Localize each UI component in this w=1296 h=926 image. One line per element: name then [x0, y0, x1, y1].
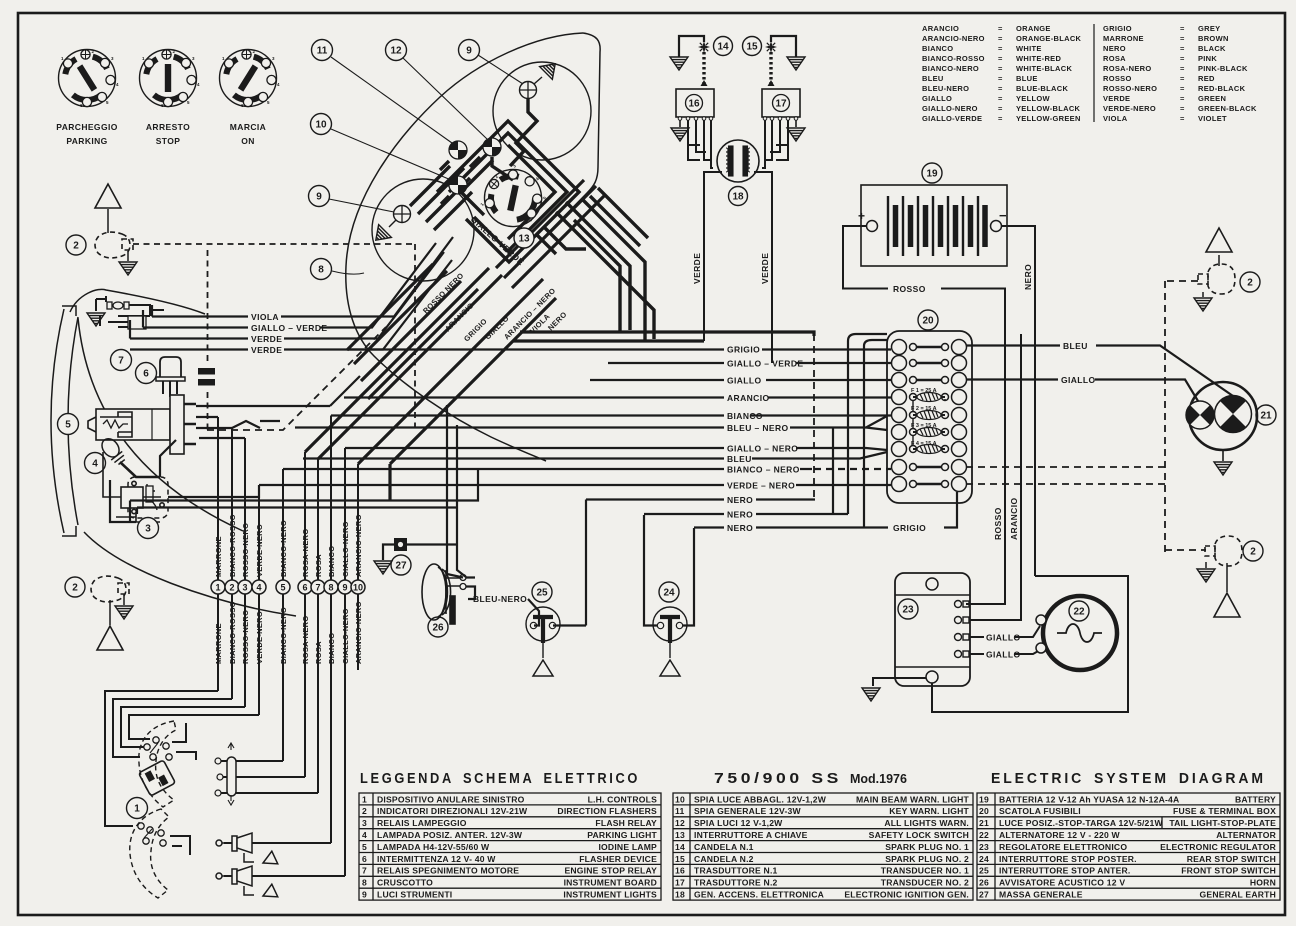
svg-text:ON: ON: [241, 136, 255, 146]
svg-text:BIANCO-NERO: BIANCO-NERO: [279, 607, 288, 664]
svg-text:14: 14: [675, 842, 685, 852]
svg-text:=: =: [1180, 34, 1185, 43]
svg-text:SPARK PLUG NO. 1: SPARK PLUG NO. 1: [885, 842, 969, 852]
dashed wire from front-left turn signal: [133, 244, 415, 430]
svg-text:25: 25: [536, 588, 548, 599]
svg-text:GIALLO-NERO: GIALLO-NERO: [341, 521, 350, 577]
svg-text:DIRECTION FLASHERS: DIRECTION FLASHERS: [557, 806, 657, 816]
terminal circles: [211, 580, 365, 594]
svg-text:20: 20: [979, 806, 989, 816]
shell bottom lip: [84, 532, 296, 616]
svg-text:GRIGIO: GRIGIO: [1103, 24, 1132, 33]
svg-text:KEY WARN. LIGHT: KEY WARN. LIGHT: [889, 806, 969, 816]
flash relay 6: [160, 357, 181, 377]
svg-text:ROSA: ROSA: [1103, 54, 1126, 63]
svg-text:2: 2: [1250, 547, 1256, 558]
svg-text:PINK-BLACK: PINK-BLACK: [1198, 64, 1248, 73]
svg-text:WHITE-RED: WHITE-RED: [1016, 54, 1061, 63]
balloon 11 with leader: [331, 57, 452, 143]
svg-text:REAR STOP SWITCH: REAR STOP SWITCH: [1187, 854, 1276, 864]
wire VERDE-NERO: [259, 484, 891, 486]
svg-text:ARANCIO: ARANCIO: [727, 393, 769, 403]
svg-text:11: 11: [675, 806, 685, 816]
spark plug 14: [679, 36, 708, 86]
svg-text:ORANGE: ORANGE: [1016, 24, 1051, 33]
svg-text:12: 12: [675, 818, 685, 828]
svg-text:17: 17: [675, 878, 685, 888]
svg-text:ARANCIO: ARANCIO: [1009, 498, 1019, 540]
lamp ladder wires: [410, 166, 472, 230]
svg-text:ARANCIO-NERO: ARANCIO-NERO: [922, 34, 985, 43]
svg-text:16: 16: [688, 99, 700, 110]
svg-text:VERDE: VERDE: [760, 253, 770, 284]
svg-text:4: 4: [256, 583, 261, 593]
svg-text:INSTRUMENT BOARD: INSTRUMENT BOARD: [564, 878, 657, 888]
svg-text:PARKING LIGHT: PARKING LIGHT: [587, 830, 657, 840]
svg-text:9: 9: [316, 192, 322, 203]
svg-text:GIALLO: GIALLO: [1061, 375, 1096, 385]
terminal rows: [892, 340, 967, 492]
svg-text:BIANCO-NERO: BIANCO-NERO: [279, 520, 288, 577]
wire NERO 1: [586, 500, 815, 626]
svg-text:=: =: [998, 74, 1003, 83]
svg-text:VERDE: VERDE: [251, 334, 282, 344]
svg-text:BIANCO: BIANCO: [727, 411, 763, 421]
svg-text:BATTERY: BATTERY: [1235, 794, 1276, 804]
svg-text:2: 2: [229, 583, 234, 593]
big lamp: [1215, 396, 1252, 433]
svg-text:ELECTRONIC IGNITION GEN.: ELECTRONIC IGNITION GEN.: [844, 890, 969, 900]
svg-text:RELAIS SPEGNIMENTO MOTORE: RELAIS SPEGNIMENTO MOTORE: [377, 866, 519, 876]
svg-text:TRANSDUCER NO. 2: TRANSDUCER NO. 2: [881, 878, 969, 888]
horn button 2: [216, 866, 278, 902]
svg-text:=: =: [1180, 74, 1185, 83]
svg-text:YELLOW-GREEN: YELLOW-GREEN: [1016, 114, 1081, 123]
svg-text:SPIA LUCI 12 V-1,2W: SPIA LUCI 12 V-1,2W: [694, 818, 783, 828]
svg-text:ROSSO: ROSSO: [1103, 74, 1132, 83]
svg-text:VERDE: VERDE: [1103, 94, 1130, 103]
svg-text:MASSA GENERALE: MASSA GENERALE: [999, 890, 1083, 900]
balloon 9 top with leader: [478, 55, 523, 84]
svg-text:23: 23: [902, 605, 914, 616]
svg-text:INTERRUTTORE A CHIAVE: INTERRUTTORE A CHIAVE: [694, 830, 808, 840]
lower contacts: [138, 823, 166, 846]
lens outer arc: [51, 309, 64, 533]
parking lamp 4: [98, 435, 127, 466]
engine stop relay parts 7: [96, 296, 164, 329]
VERDE wires down: [704, 172, 772, 363]
svg-text:GIALLO-VERDE: GIALLO-VERDE: [922, 114, 982, 123]
svg-text:VERDE: VERDE: [692, 253, 702, 284]
svg-text:22: 22: [1073, 607, 1085, 618]
dash lamp 9 left: [394, 206, 411, 223]
svg-text:=: =: [998, 54, 1003, 63]
svg-text:5: 5: [280, 583, 285, 593]
key switch 13: [472, 155, 556, 239]
speedometer circle: [493, 62, 591, 160]
svg-text:SCATOLA FUSIBILI: SCATOLA FUSIBILI: [999, 806, 1081, 816]
svg-text:22: 22: [979, 830, 989, 840]
wire BLEU-NERO: [295, 416, 887, 430]
diagonal NERO: [390, 298, 556, 500]
upper contacts: [144, 737, 172, 760]
svg-text:INTERMITTENZA 12 V- 40 W: INTERMITTENZA 12 V- 40 W: [377, 854, 496, 864]
svg-text:VERDE: VERDE: [251, 345, 282, 355]
svg-text:=: =: [998, 84, 1003, 93]
svg-text:6: 6: [143, 369, 149, 380]
headlight harness rows: [110, 376, 360, 522]
wire NERO 3: [694, 526, 864, 528]
svg-text:BIANCO-ROSSO: BIANCO-ROSSO: [922, 54, 985, 63]
svg-text:L.H. CONTROLS: L.H. CONTROLS: [588, 794, 658, 804]
svg-text:13: 13: [675, 830, 685, 840]
terminal labels upper: [214, 514, 363, 577]
svg-text:1: 1: [134, 804, 140, 815]
battery wires: ROSSO and NERO: [843, 226, 1035, 604]
svg-text:8: 8: [362, 878, 367, 888]
balloon 14: [714, 37, 733, 56]
svg-text:12: 12: [390, 46, 402, 57]
svg-text:BROWN: BROWN: [1198, 34, 1229, 43]
wire GRIGIO: [347, 348, 891, 350]
svg-text:PARKING: PARKING: [66, 136, 107, 146]
svg-text:15: 15: [746, 42, 758, 53]
horn wires: [447, 405, 475, 599]
wire BLEU to tail light: [966, 346, 1233, 397]
svg-text:VERDE-NERO: VERDE-NERO: [255, 524, 264, 577]
svg-text:13: 13: [518, 234, 530, 245]
warning lamp 11: [447, 139, 469, 161]
svg-text:21: 21: [979, 818, 989, 828]
wires VIOLA / GIALLO-VERDE / VERDE / VERDE: [130, 237, 453, 350]
wire BIANCO-NERO: [283, 468, 812, 470]
svg-text:BLEU: BLEU: [922, 74, 944, 83]
diagonal ARANCIO-NERO: [358, 279, 543, 464]
svg-text:BLEU-NERO: BLEU-NERO: [922, 84, 969, 93]
diamond ring outer: [437, 121, 579, 262]
svg-text:5: 5: [362, 842, 367, 852]
svg-text:27: 27: [395, 561, 407, 572]
svg-text:ARANCIO: ARANCIO: [922, 24, 959, 33]
svg-text:BATTERIA 12 V-12 Ah YUASA 12 N: BATTERIA 12 V-12 Ah YUASA 12 N-12A-4A: [999, 794, 1179, 804]
svg-text:ROSSO-NERO: ROSSO-NERO: [241, 610, 250, 664]
svg-text:14: 14: [717, 42, 729, 53]
svg-text:16: 16: [675, 866, 685, 876]
shell main arc: [78, 318, 243, 531]
svg-text:2: 2: [72, 583, 78, 594]
svg-text:1: 1: [362, 794, 367, 804]
transducer 16: [676, 89, 714, 117]
svg-text:MARRONE: MARRONE: [214, 623, 223, 664]
svg-text:4: 4: [92, 459, 98, 470]
svg-text:MARRONE: MARRONE: [214, 536, 223, 577]
svg-text:GENERAL EARTH: GENERAL EARTH: [1200, 890, 1276, 900]
svg-text:=: =: [1180, 94, 1185, 103]
svg-text:NERO: NERO: [1023, 264, 1033, 290]
svg-text:TRANSDUCER NO. 1: TRANSDUCER NO. 1: [881, 866, 969, 876]
svg-text:GIALLO-NERO: GIALLO-NERO: [341, 608, 350, 664]
warning lamp 10: [447, 174, 469, 196]
diagonal GIALLO: [361, 281, 461, 381]
svg-text:=: =: [998, 44, 1003, 53]
svg-text:ARANCIO-NERO: ARANCIO-NERO: [354, 601, 363, 664]
lower switch crescent (dashed): [130, 809, 169, 898]
svg-text:NERO: NERO: [727, 510, 753, 520]
svg-text:GIALLO: GIALLO: [986, 650, 1021, 660]
svg-text:BLEU: BLEU: [1063, 341, 1088, 351]
svg-text:=: =: [998, 64, 1003, 73]
svg-text:FRONT STOP SWITCH: FRONT STOP SWITCH: [1181, 866, 1276, 876]
svg-text:23: 23: [979, 842, 989, 852]
svg-text:8: 8: [318, 265, 324, 276]
front-left turn signal 2: [95, 232, 133, 258]
svg-text:7: 7: [118, 356, 124, 367]
svg-text:GREY: GREY: [1198, 24, 1220, 33]
svg-text:18: 18: [732, 192, 744, 203]
wire GRIGIO bottom to fuse row 9: [864, 492, 957, 528]
balloon 18: [729, 187, 748, 206]
svg-text:9: 9: [466, 46, 472, 57]
svg-text:VERDE-NERO: VERDE-NERO: [255, 611, 264, 664]
svg-text:9: 9: [362, 890, 367, 900]
svg-text:2: 2: [362, 806, 367, 816]
svg-text:BIANCO: BIANCO: [327, 546, 336, 577]
svg-text:INTERRUTTORE STOP POSTER.: INTERRUTTORE STOP POSTER.: [999, 854, 1137, 864]
svg-text:ROSA-NERO: ROSA-NERO: [301, 528, 310, 577]
svg-text:ROSSO: ROSSO: [893, 284, 926, 294]
terminal labels lower: [214, 601, 363, 664]
svg-text:ROSA-NERO: ROSA-NERO: [1103, 64, 1152, 73]
svg-text:=: =: [1180, 114, 1185, 123]
svg-text:18: 18: [675, 890, 685, 900]
svg-text:PARCHEGGIO: PARCHEGGIO: [56, 122, 117, 132]
svg-text:CANDELA N.2: CANDELA N.2: [694, 854, 754, 864]
regulator wires: [873, 334, 1128, 712]
diagonal ROSA: [318, 275, 502, 459]
svg-text:750/900 SS: 750/900 SS: [714, 771, 842, 787]
svg-text:26: 26: [979, 878, 989, 888]
balloon 8 with leader: [332, 271, 364, 274]
diagonal wire labels: [421, 271, 569, 343]
wire BLEU: [303, 452, 887, 459]
legend divider line: [1093, 24, 1095, 122]
diamond ring 3: [508, 145, 555, 239]
svg-text:2: 2: [73, 241, 79, 252]
svg-text:LUCI STRUMENTI: LUCI STRUMENTI: [377, 890, 452, 900]
extra SE parallels: [496, 180, 606, 288]
spark plug 15: [768, 36, 797, 86]
svg-text:WHITE: WHITE: [1016, 44, 1042, 53]
svg-text:AVVISATORE ACUSTICO 12 V: AVVISATORE ACUSTICO 12 V: [999, 878, 1125, 888]
svg-text:10: 10: [675, 794, 685, 804]
svg-text:BLUE: BLUE: [1016, 74, 1038, 83]
balloon 1: [127, 798, 148, 819]
svg-text:LEGGENDA SCHEMA ELETTRICO: LEGGENDA SCHEMA ELETTRICO: [360, 771, 640, 787]
battery cells: [888, 196, 985, 256]
svg-text:MAIN BEAM WARN. LIGHT: MAIN BEAM WARN. LIGHT: [856, 794, 970, 804]
svg-text:GIALLO – VERDE: GIALLO – VERDE: [251, 323, 327, 333]
tachometer circle: [372, 179, 474, 281]
svg-text:=: =: [1180, 64, 1185, 73]
balloon 10 with leader: [331, 129, 451, 180]
svg-text:26: 26: [432, 623, 444, 634]
nested routing wires: [105, 691, 345, 876]
svg-text:BLEU-NERO: BLEU-NERO: [473, 594, 527, 604]
lens bottom tab: [62, 526, 76, 536]
svg-text:BIANCO: BIANCO: [327, 633, 336, 664]
warning lamp 12: [481, 136, 503, 158]
svg-text:25: 25: [979, 866, 989, 876]
wire from dash lamp 9 down to switch: [510, 99, 537, 166]
long left rows: [130, 469, 478, 522]
svg-text:ROSSO-NERO: ROSSO-NERO: [241, 523, 250, 577]
svg-text:NERO: NERO: [1103, 44, 1126, 53]
svg-text:INDICATORI DIREZIONALI 12V-21W: INDICATORI DIREZIONALI 12V-21W: [377, 806, 528, 816]
svg-text:9: 9: [342, 583, 347, 593]
svg-text:2: 2: [1247, 278, 1253, 289]
svg-text:SPARK PLUG NO. 2: SPARK PLUG NO. 2: [885, 854, 969, 864]
transducer 17: [762, 89, 800, 117]
svg-text:ROSSO: ROSSO: [993, 507, 1003, 540]
diagonal ARANCIO: [368, 289, 478, 399]
svg-text:=: =: [1180, 84, 1185, 93]
short rows 332/341: [513, 332, 814, 341]
svg-text:BLUE-BLACK: BLUE-BLACK: [1016, 84, 1068, 93]
svg-text:ROSA-NERO: ROSA-NERO: [301, 615, 310, 664]
svg-text:ELECTRONIC REGULATOR: ELECTRONIC REGULATOR: [1160, 842, 1276, 852]
svg-text:10: 10: [353, 583, 363, 593]
svg-text:STOP: STOP: [156, 136, 181, 146]
svg-text:ROSA: ROSA: [314, 641, 323, 664]
svg-text:BIANCO-ROSSO: BIANCO-ROSSO: [228, 514, 237, 577]
svg-text:5: 5: [65, 420, 71, 431]
svg-text:ORANGE-BLACK: ORANGE-BLACK: [1016, 34, 1082, 43]
balloon 15: [743, 37, 762, 56]
fairing balloons: [514, 228, 534, 248]
dash lamp 9 top: [520, 82, 537, 99]
fuses F1-F4: [911, 388, 937, 447]
wire NERO 2: [644, 513, 848, 515]
svg-text:24: 24: [979, 854, 989, 864]
svg-text:GIALLO: GIALLO: [727, 376, 762, 386]
wires 16/17 to generator 18: [688, 120, 788, 168]
svg-text:CRUSCOTTO: CRUSCOTTO: [377, 878, 433, 888]
svg-text:20: 20: [922, 316, 934, 327]
wire BIANCO: [331, 414, 891, 416]
wire GIALLO-NERO: [345, 448, 887, 450]
svg-text:24: 24: [663, 588, 675, 599]
svg-text:VIOLA: VIOLA: [1103, 114, 1128, 123]
svg-text:=: =: [1180, 54, 1185, 63]
svg-text:ROSSO-NERO: ROSSO-NERO: [1103, 84, 1157, 93]
svg-text:=: =: [998, 104, 1003, 113]
svg-text:15: 15: [675, 854, 685, 864]
svg-text:NERO: NERO: [727, 495, 753, 505]
svg-text:BLEU – NERO: BLEU – NERO: [727, 423, 789, 433]
wires 25: [528, 599, 586, 626]
wire GIALLO to tail light: [966, 380, 1198, 402]
svg-text:ENGINE STOP RELAY: ENGINE STOP RELAY: [564, 866, 657, 876]
svg-text:FUSE & TERMINAL BOX: FUSE & TERMINAL BOX: [1173, 806, 1276, 816]
svg-text:−: −: [999, 208, 1007, 223]
terminal verticals lower: [218, 594, 358, 876]
svg-text:6: 6: [362, 854, 367, 864]
svg-text:BIANCO: BIANCO: [922, 44, 953, 53]
svg-text:ALTERNATOR: ALTERNATOR: [1216, 830, 1276, 840]
svg-text:GIALLO: GIALLO: [986, 633, 1021, 643]
svg-text:CANDELA N.1: CANDELA N.1: [694, 842, 754, 852]
svg-text:BLACK: BLACK: [1198, 44, 1226, 53]
svg-text:=: =: [998, 24, 1003, 33]
svg-text:7: 7: [315, 583, 320, 593]
svg-text:ALL LIGHTS WARN.: ALL LIGHTS WARN.: [884, 818, 969, 828]
switch ARRESTO: [140, 49, 201, 108]
svg-text:MARCIA: MARCIA: [230, 122, 266, 132]
svg-text:TRASDUTTORE N.2: TRASDUTTORE N.2: [694, 878, 778, 888]
verticals joining rows: [833, 341, 864, 527]
small lamp: [1186, 401, 1214, 429]
dimmer capsule: [227, 757, 236, 796]
switch PARCHEGGIO: [59, 49, 120, 108]
svg-text:REGOLATORE ELETTRONICO: REGOLATORE ELETTRONICO: [999, 842, 1127, 852]
svg-text:LAMPADA H4-12V-55/60 W: LAMPADA H4-12V-55/60 W: [377, 842, 490, 852]
svg-text:BIANCO-ROSSO: BIANCO-ROSSO: [228, 601, 237, 664]
svg-text:GIALLO – VERDE: GIALLO – VERDE: [727, 359, 803, 369]
diagonal GIALLO-VERDE: [354, 271, 447, 364]
svg-text:BIANCO-NERO: BIANCO-NERO: [922, 64, 979, 73]
svg-text:GRIGIO: GRIGIO: [893, 523, 926, 533]
wire ARANCIO: [344, 396, 891, 398]
svg-text:ROSA: ROSA: [314, 554, 323, 577]
svg-text:FLASH RELAY: FLASH RELAY: [595, 818, 657, 828]
svg-text:3: 3: [362, 818, 367, 828]
wire GIALLO: [590, 379, 891, 381]
svg-text:BIANCO – NERO: BIANCO – NERO: [727, 465, 800, 475]
zig from lamp 12 to switch: [492, 157, 513, 180]
svg-text:GREEN-BLACK: GREEN-BLACK: [1198, 104, 1257, 113]
svg-text:19: 19: [979, 794, 989, 804]
svg-text:ELECTRIC SYSTEM DIAGRAM: ELECTRIC SYSTEM DIAGRAM: [991, 771, 1266, 787]
svg-text:+: +: [858, 209, 865, 223]
svg-text:WHITE-BLACK: WHITE-BLACK: [1016, 64, 1072, 73]
svg-text:=: =: [1180, 104, 1185, 113]
svg-text:=: =: [998, 114, 1003, 123]
svg-text:21: 21: [1260, 411, 1272, 422]
svg-text:10: 10: [315, 120, 327, 131]
svg-text:GIALLO-NERO: GIALLO-NERO: [922, 104, 978, 113]
diagonal ROSA-NERO: [305, 268, 489, 452]
svg-text:SAFETY LOCK SWITCH: SAFETY LOCK SWITCH: [869, 830, 969, 840]
svg-text:BLEU: BLEU: [727, 454, 752, 464]
svg-text:LUCE POSIZ.-STOP-TARGA 12V-5/2: LUCE POSIZ.-STOP-TARGA 12V-5/21W: [999, 818, 1164, 828]
svg-text:SPIA GENERALE 12V-3W: SPIA GENERALE 12V-3W: [694, 806, 802, 816]
lens top tab: [62, 306, 76, 316]
svg-text:3: 3: [242, 583, 247, 593]
horn button 1: [216, 833, 278, 869]
svg-text:RELAIS LAMPEGGIO: RELAIS LAMPEGGIO: [377, 818, 467, 828]
switch MARCIA: [220, 49, 281, 108]
svg-text:19: 19: [926, 169, 938, 180]
upper switch crescent (dashed): [139, 721, 176, 807]
svg-text:Mod.1976: Mod.1976: [850, 772, 907, 786]
svg-text:VERDE – NERO: VERDE – NERO: [727, 481, 795, 491]
svg-text:DISPOSITIVO ANULARE SINISTRO: DISPOSITIVO ANULARE SINISTRO: [377, 794, 525, 804]
svg-text:GRIGIO: GRIGIO: [727, 345, 760, 355]
svg-text:ARRESTO: ARRESTO: [146, 122, 190, 132]
shell top hat: [70, 289, 205, 314]
dashed diagonal from front turn signal: [207, 327, 386, 430]
svg-text:GEN. ACCENS. ELETTRONICA: GEN. ACCENS. ELETTRONICA: [694, 890, 824, 900]
